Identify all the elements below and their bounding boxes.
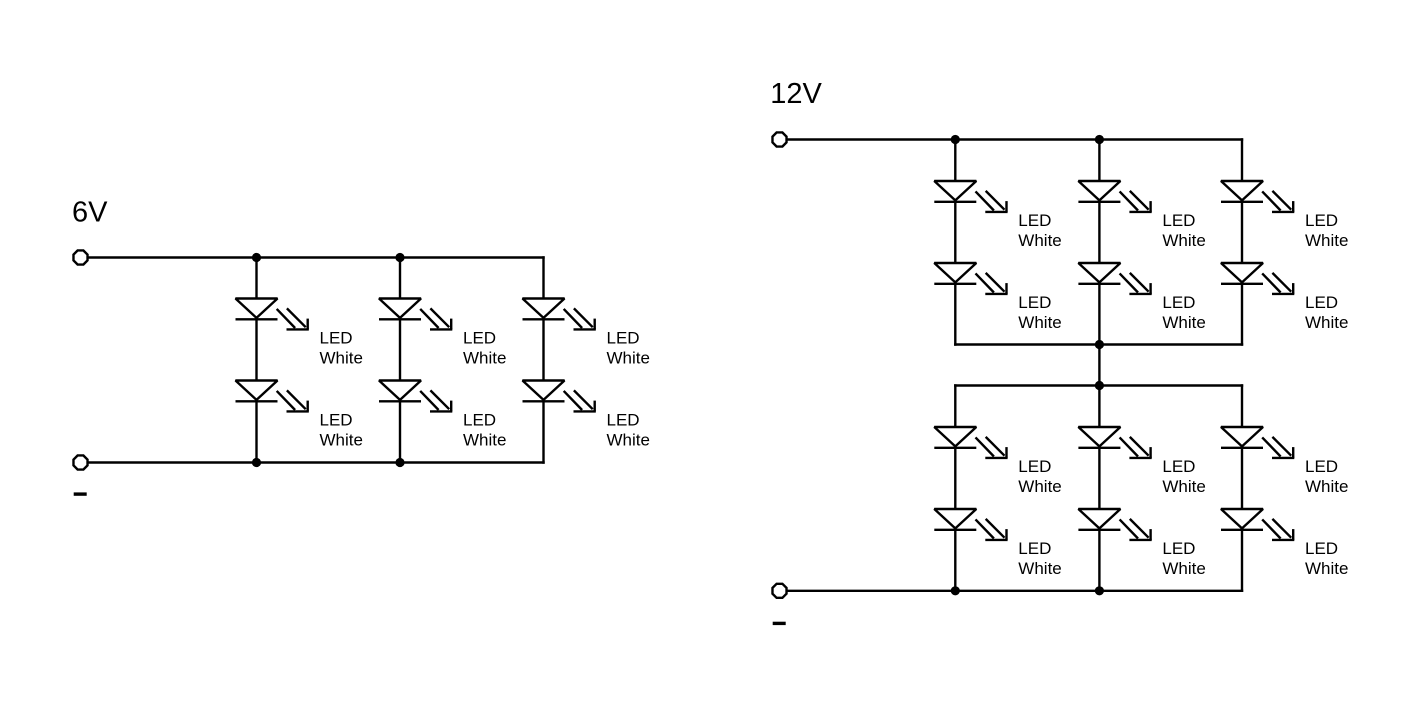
LED D7 (12V bank1 branch 1, position 1) bbox=[934, 181, 1007, 212]
LED D2 (6V branch 1, position 2) bbox=[236, 381, 309, 412]
svg-text:White: White bbox=[1305, 313, 1348, 332]
LED D4 (6V branch 2, position 2) bbox=[379, 381, 452, 412]
svg-text:LED: LED bbox=[1162, 539, 1195, 558]
svg-text:White: White bbox=[1162, 313, 1205, 332]
minus sign (6V) bbox=[74, 492, 87, 495]
svg-text:LED: LED bbox=[463, 328, 496, 347]
junction top rail / branch 2 (6V) bbox=[395, 253, 404, 262]
LED D16 (12V bank2 branch 2, position 2) bbox=[1078, 509, 1151, 540]
wire bank1 branch 2 (12V) bbox=[1098, 140, 1100, 345]
svg-text:White: White bbox=[320, 348, 363, 367]
wire bank1 branch 1 (12V) bbox=[954, 140, 956, 345]
wire bank1 bottom rail (12V) bbox=[955, 343, 1242, 345]
minus sign (12V) bbox=[773, 622, 786, 625]
wire bank2 branch 1 (12V) bbox=[954, 386, 956, 591]
wire branch 1 (6V) bbox=[255, 258, 257, 463]
svg-text:LED: LED bbox=[1018, 293, 1051, 312]
LED D12 (12V bank1 branch 3, position 2) bbox=[1221, 263, 1294, 294]
LED D3 (6V branch 2, position 1) bbox=[379, 299, 452, 330]
svg-text:White: White bbox=[1018, 231, 1061, 250]
LED D10 (12V bank1 branch 2, position 2) bbox=[1078, 263, 1151, 294]
terminal + (12V positive) bbox=[772, 132, 786, 146]
svg-text:White: White bbox=[1018, 559, 1061, 578]
svg-text:White: White bbox=[1162, 559, 1205, 578]
svg-text:LED: LED bbox=[320, 410, 353, 429]
svg-text:LED: LED bbox=[1305, 457, 1338, 476]
junction top rail / branch 1 (6V) bbox=[252, 253, 261, 262]
junction bank2 top rail / link bbox=[1095, 381, 1104, 390]
LED D6 (6V branch 3, position 2) bbox=[523, 381, 596, 412]
junction 12V bottom rail / branch 2 bbox=[1095, 586, 1104, 595]
junction 12V bottom rail / branch 1 bbox=[951, 586, 960, 595]
svg-text:White: White bbox=[1305, 559, 1348, 578]
svg-text:LED: LED bbox=[463, 410, 496, 429]
wire 6V top rail bbox=[88, 256, 543, 258]
terminal - (6V negative) bbox=[73, 455, 87, 469]
LED D9 (12V bank1 branch 2, position 1) bbox=[1078, 181, 1151, 212]
svg-text:White: White bbox=[1162, 477, 1205, 496]
LED D1 (6V branch 1, position 1) bbox=[236, 299, 309, 330]
LED D18 (12V bank2 branch 3, position 2) bbox=[1221, 509, 1294, 540]
svg-text:LED: LED bbox=[1305, 211, 1338, 230]
svg-text:White: White bbox=[607, 348, 650, 367]
wire 12V bottom rail bbox=[787, 590, 1242, 592]
svg-text:White: White bbox=[463, 348, 506, 367]
svg-text:LED: LED bbox=[1305, 293, 1338, 312]
wire bank2 branch 2 (12V) bbox=[1098, 386, 1100, 591]
svg-text:White: White bbox=[320, 430, 363, 449]
svg-text:White: White bbox=[1018, 313, 1061, 332]
svg-text:LED: LED bbox=[1162, 211, 1195, 230]
svg-text:LED: LED bbox=[1018, 211, 1051, 230]
LED D8 (12V bank1 branch 1, position 2) bbox=[934, 263, 1007, 294]
svg-text:LED: LED bbox=[1305, 539, 1338, 558]
svg-text:LED: LED bbox=[1018, 457, 1051, 476]
svg-text:LED: LED bbox=[607, 328, 640, 347]
terminal - (12V negative) bbox=[772, 584, 786, 598]
LED D5 (6V branch 3, position 1) bbox=[523, 299, 596, 330]
junction 12V top rail / branch 2 bbox=[1095, 135, 1104, 144]
wire bank1 branch 3 (12V) bbox=[1241, 140, 1243, 345]
junction bottom rail / branch 1 (6V) bbox=[252, 458, 261, 467]
svg-text:LED: LED bbox=[1162, 293, 1195, 312]
wire bank2 branch 3 (12V) bbox=[1241, 386, 1243, 591]
wire 12V top rail bbox=[787, 138, 1242, 140]
LED D11 (12V bank1 branch 3, position 1) bbox=[1221, 181, 1294, 212]
wire 6V bottom rail bbox=[88, 461, 543, 463]
svg-text:White: White bbox=[1162, 231, 1205, 250]
svg-text:White: White bbox=[463, 430, 506, 449]
LED D15 (12V bank2 branch 2, position 1) bbox=[1078, 427, 1151, 458]
svg-text:LED: LED bbox=[1162, 457, 1195, 476]
svg-text:LED: LED bbox=[320, 328, 353, 347]
wire bank link (12V) bbox=[1098, 345, 1100, 386]
junction 12V top rail / branch 1 bbox=[951, 135, 960, 144]
wire branch 2 (6V) bbox=[399, 258, 401, 463]
LED D14 (12V bank2 branch 1, position 2) bbox=[934, 509, 1007, 540]
junction bottom rail / branch 2 (6V) bbox=[395, 458, 404, 467]
wire bank2 top rail (12V) bbox=[955, 384, 1242, 386]
svg-text:6V: 6V bbox=[72, 197, 108, 229]
svg-text:LED: LED bbox=[607, 410, 640, 429]
LED D13 (12V bank2 branch 1, position 1) bbox=[934, 427, 1007, 458]
svg-text:12V: 12V bbox=[770, 78, 822, 110]
junction bank1 bottom rail / link bbox=[1095, 340, 1104, 349]
svg-text:White: White bbox=[1305, 231, 1348, 250]
terminal + (6V positive) bbox=[73, 250, 87, 264]
svg-text:White: White bbox=[607, 430, 650, 449]
svg-text:White: White bbox=[1018, 477, 1061, 496]
LED D17 (12V bank2 branch 3, position 1) bbox=[1221, 427, 1294, 458]
wire branch 3 (6V) bbox=[542, 258, 544, 463]
svg-text:White: White bbox=[1305, 477, 1348, 496]
svg-text:LED: LED bbox=[1018, 539, 1051, 558]
